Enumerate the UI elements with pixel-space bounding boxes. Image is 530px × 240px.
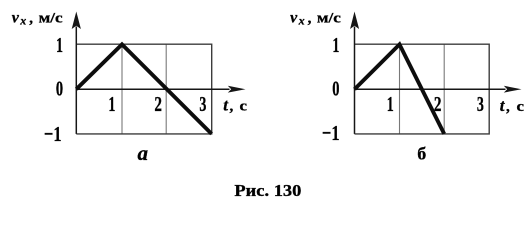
- svg-text:1: 1: [108, 92, 115, 116]
- svg-text:,: ,: [29, 10, 33, 26]
- svg-text:3: 3: [477, 92, 484, 116]
- svg-text:1: 1: [332, 33, 339, 57]
- svg-text:с: с: [517, 99, 525, 115]
- svg-text:м/с: м/с: [39, 10, 63, 26]
- svg-text:2: 2: [154, 92, 162, 116]
- svg-text:1: 1: [387, 92, 394, 116]
- svg-text:−1: −1: [44, 122, 62, 146]
- svg-text:б: б: [417, 144, 426, 164]
- svg-text:2: 2: [434, 92, 442, 116]
- svg-text:0: 0: [332, 76, 339, 100]
- svg-text:а: а: [138, 141, 149, 165]
- svg-text:,: ,: [230, 99, 234, 115]
- svg-text:−1: −1: [322, 121, 340, 145]
- svg-text:x: x: [298, 14, 305, 28]
- svg-text:1: 1: [56, 33, 63, 57]
- svg-text:v: v: [12, 9, 20, 26]
- svg-text:м/с: м/с: [317, 10, 341, 26]
- svg-text:3: 3: [199, 92, 206, 116]
- svg-text:,: ,: [308, 10, 312, 26]
- svg-text:x: x: [19, 14, 26, 28]
- svg-text:Рис. 130: Рис. 130: [234, 181, 301, 200]
- svg-text:v: v: [290, 9, 298, 26]
- svg-text:0: 0: [56, 76, 63, 100]
- svg-text:,: ,: [506, 99, 510, 115]
- svg-text:с: с: [240, 99, 248, 115]
